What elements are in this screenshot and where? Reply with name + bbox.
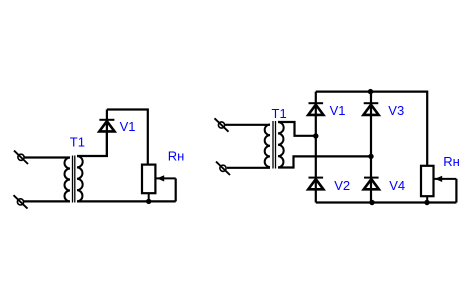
svg-text:T1: T1 [70,135,85,150]
svg-text:V3: V3 [388,103,404,118]
svg-text:V2: V2 [334,178,350,193]
svg-text:V1: V1 [330,103,346,118]
svg-text:Rн: Rн [443,154,460,169]
svg-text:T1: T1 [272,106,287,121]
svg-text:V1: V1 [120,119,136,134]
svg-text:V4: V4 [389,178,405,193]
svg-text:Rн: Rн [168,149,185,164]
